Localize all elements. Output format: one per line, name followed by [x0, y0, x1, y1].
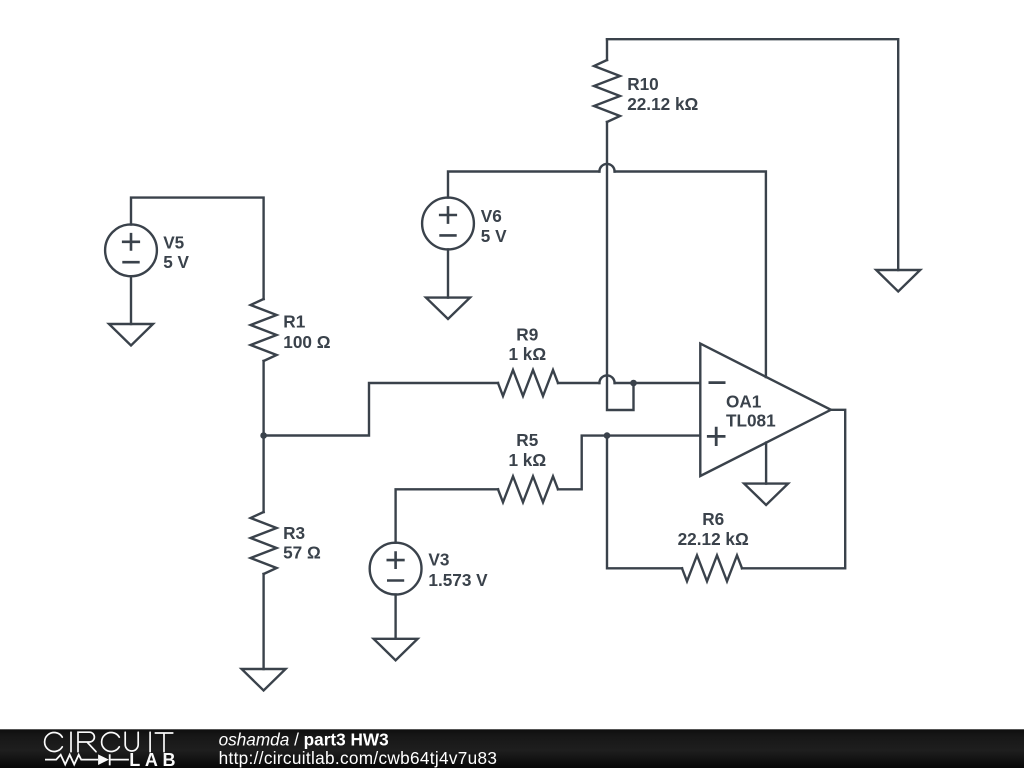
wire V3 top to R5 input: [396, 489, 498, 542]
ground under V5: [109, 324, 153, 346]
op-amp minus symbol: [709, 381, 726, 384]
wire R10 top: [606, 39, 608, 60]
resistor R1: [251, 299, 277, 361]
CircuitLab logo wordmark CIRCUIT: [45, 732, 173, 752]
junction dot minus input: [630, 380, 637, 387]
op-amp ground pin: [765, 443, 767, 484]
ground under V6: [426, 298, 470, 319]
svg-text:V5: V5: [163, 233, 184, 253]
V6 minus sign: [439, 234, 456, 237]
svg-text:V3: V3: [428, 550, 449, 570]
wire R6 right to output: [742, 410, 845, 569]
junction dot R1 R3 node: [260, 432, 267, 439]
svg-text:R10: R10: [627, 74, 659, 94]
svg-text:OA1: OA1: [726, 391, 762, 411]
junction dot plus input: [604, 432, 611, 439]
op-amp OA1 triangle: [700, 344, 831, 476]
resistor R9: [498, 370, 558, 396]
svg-text:TL081: TL081: [726, 411, 776, 431]
svg-text:R1: R1: [283, 312, 305, 332]
V5 minus sign: [122, 261, 139, 264]
wire feedback R10 bottom down and around to minus node: [607, 122, 634, 410]
op-amp plus symbol: [707, 427, 726, 446]
wire V5 top to R1 top: [131, 198, 264, 299]
svg-text:100 Ω: 100 Ω: [283, 332, 330, 352]
svg-text:1 kΩ: 1 kΩ: [508, 344, 546, 364]
wire V6 top to rail: [448, 172, 599, 198]
CircuitLab logo schematic line with resistor and diode: [45, 754, 129, 765]
wire R3 bottom to ground: [262, 574, 264, 669]
svg-text:22.12 kΩ: 22.12 kΩ: [678, 529, 749, 549]
svg-text:57 Ω: 57 Ω: [283, 542, 321, 562]
voltage source V6: [422, 198, 474, 250]
wire hop over feedback line on V6 rail: [599, 164, 614, 172]
svg-text:5 V: 5 V: [163, 252, 189, 272]
svg-text:V6: V6: [481, 206, 502, 226]
wire V6 bottom to ground: [447, 249, 449, 297]
wire hop to op-amp minus input: [615, 382, 701, 384]
svg-text:R5: R5: [516, 430, 538, 450]
svg-text:R9: R9: [516, 324, 538, 344]
svg-text:1.573 V: 1.573 V: [428, 570, 488, 590]
resistor R6: [682, 555, 742, 581]
voltage source V5: [105, 224, 157, 276]
wire node to R9 input: [264, 383, 498, 436]
svg-text:R3: R3: [283, 523, 305, 543]
ground under R3: [242, 669, 286, 691]
V3 minus sign: [387, 579, 404, 582]
V6 plus sign: [439, 206, 457, 224]
CircuitLab logo diode triangle: [98, 754, 109, 765]
wire R1 bottom through node to R3 top: [262, 361, 264, 512]
wire top rail R10 to right ground: [607, 39, 898, 270]
svg-text:http://circuitlab.com/cwb64tj4: http://circuitlab.com/cwb64tj4v7u83: [219, 748, 498, 768]
resistor R3: [251, 512, 277, 574]
footer bar: [0, 729, 1024, 768]
svg-text:R6: R6: [702, 509, 724, 529]
resistor R5: [498, 476, 558, 502]
ground under op-amp: [744, 484, 788, 505]
wire R5 output up to plus node: [558, 436, 700, 490]
V5 plus sign: [122, 233, 140, 251]
ground top right: [876, 270, 920, 292]
svg-text:oshamda / part3 HW3: oshamda / part3 HW3: [219, 729, 389, 749]
svg-text:22.12 kΩ: 22.12 kΩ: [627, 94, 698, 114]
voltage source V3: [370, 543, 422, 595]
wire V3 bottom to ground: [394, 595, 396, 639]
wire plus node down to R6 left: [607, 436, 682, 569]
resistor R10: [594, 60, 620, 122]
ground under V3: [374, 639, 418, 661]
V3 plus sign: [387, 551, 405, 569]
wire R9 output to hop: [558, 382, 599, 384]
svg-text:5 V: 5 V: [481, 226, 507, 246]
wire V5 bottom to ground: [130, 276, 132, 324]
svg-text:LAB: LAB: [129, 750, 180, 768]
wire V6 rail to op-amp power pin: [615, 172, 766, 378]
svg-text:1 kΩ: 1 kΩ: [508, 450, 546, 470]
wire hop over feedback line: [599, 375, 614, 383]
